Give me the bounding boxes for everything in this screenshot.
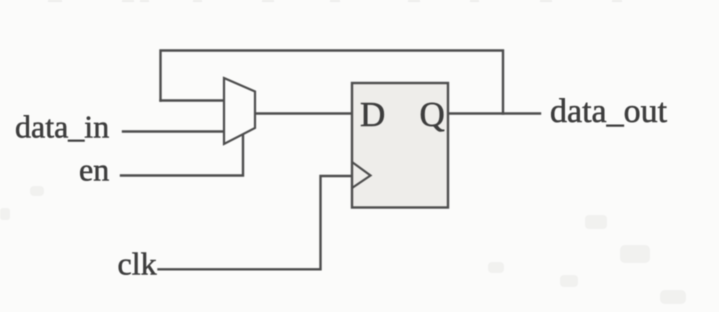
svg-text:Q: Q <box>420 95 445 134</box>
svg-text:D: D <box>360 95 385 134</box>
svg-text:clk: clk <box>118 246 157 282</box>
svg-text:data_out: data_out <box>550 93 668 130</box>
svg-text:en: en <box>79 151 109 187</box>
svg-text:data_in: data_in <box>15 109 109 145</box>
